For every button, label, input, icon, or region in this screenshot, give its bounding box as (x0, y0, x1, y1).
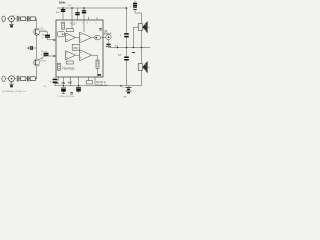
svg-text:5: 5 (96, 23, 97, 25)
pin arrow 2 (54, 55, 56, 57)
wire input1 (19, 19, 37, 28)
capacitor C2b (27, 76, 29, 81)
battery B1 (122, 86, 131, 99)
pin numbers (60, 23, 97, 25)
tick on riser (132, 52, 135, 54)
svg-text:IC1: IC1 (71, 21, 76, 25)
top rail (57, 7, 127, 9)
mark near right edge (99, 29, 101, 30)
capacitor C2 (17, 76, 19, 82)
svg-text:MC: MC (74, 46, 79, 50)
resistor R1 (21, 17, 26, 21)
IC box U1 (56, 20, 103, 77)
wire input2 (19, 78, 37, 80)
speaker LS2 (138, 48, 147, 86)
input jack J1 (2, 16, 5, 21)
svg-text:100n: 100n (59, 1, 66, 5)
electrolytic cap E1 (106, 44, 111, 47)
wires amp row 1 (76, 37, 95, 39)
op-amp B1 (80, 32, 92, 43)
svg-text:10u: 10u (42, 34, 45, 36)
svg-text:C7 100n C8 100u: C7 100n C8 100u (57, 96, 75, 98)
component box on pin (86, 81, 92, 84)
wire between transistors (36, 48, 38, 59)
pin ticks top (89, 17, 98, 20)
svg-text:DC-9V In: DC-9V In (96, 82, 106, 84)
speaker LS1 (138, 13, 147, 48)
output oval 1 (94, 35, 101, 40)
capacitor C10 (56, 1, 66, 20)
ground G2 (9, 82, 13, 88)
svg-text:900mA: 900mA (104, 33, 112, 36)
interior stubs (72, 20, 84, 32)
resistor inside bottom-right (96, 60, 99, 77)
microphone M1 (7, 15, 16, 22)
wire T1 collector (36, 35, 38, 48)
input jack J2 (2, 76, 5, 81)
op-amp D1 (80, 50, 92, 61)
svg-text:2: 2 (82, 23, 83, 25)
capacitor C4 to ground (61, 88, 66, 93)
ground G1 (9, 22, 13, 28)
svg-text:7: 7 (60, 23, 61, 25)
riser to LS1 (134, 27, 139, 47)
output wire W1 (109, 47, 151, 49)
lamp L1 (106, 35, 111, 44)
svg-text:8: 8 (87, 23, 88, 25)
pin arrow 1 (54, 39, 56, 41)
resistor inside bottom (57, 63, 60, 70)
svg-text:DC-9V out: DC-9V out (96, 84, 107, 87)
capacitor C8 to ground (76, 88, 81, 93)
feedback resistor top (66, 29, 73, 32)
svg-text:HY-WA-Ag GTCH92 ed: HY-WA-Ag GTCH92 ed (3, 90, 26, 93)
feedback resistor bottom (66, 61, 73, 64)
svg-text:10u: 10u (41, 51, 44, 53)
capacitor C1b (27, 16, 29, 21)
wire T2 down (36, 66, 38, 79)
svg-text:BC550: BC550 (40, 61, 46, 63)
resistor R4 (30, 77, 35, 81)
bottom rail (55, 85, 142, 87)
wires amp row 2 (76, 55, 98, 60)
pin stub (71, 8, 73, 20)
capacitor C17 top right (130, 1, 142, 13)
capacitor C12 (82, 7, 86, 20)
svg-text:TDA7052: TDA7052 (62, 67, 75, 71)
capacitor C5 (40, 32, 54, 40)
capacitor C3 (28, 46, 37, 50)
capacitor C11 (75, 8, 79, 20)
capacitor C1 (17, 16, 19, 22)
resistor inside top (62, 22, 65, 29)
op-amp A1 (66, 33, 76, 42)
capacitor C13 (50, 77, 58, 86)
rail junction dots (63, 85, 65, 87)
capacitor C6 (39, 51, 53, 60)
mid block MC (72, 44, 80, 50)
drop with capacitor C15 (118, 48, 129, 86)
small marks (70, 93, 73, 94)
block left (58, 32, 65, 37)
pin stubs bottom (59, 77, 96, 86)
transistor T2 (34, 59, 40, 66)
svg-text:3: 3 (76, 23, 77, 25)
svg-text:10u: 10u (55, 83, 60, 85)
resistor R3 (21, 77, 26, 81)
microphone M2 (7, 75, 16, 82)
resistor R2 (30, 17, 35, 21)
riser with capacitor C14 (120, 7, 129, 47)
bar near corner (98, 74, 101, 76)
op-amp C1t (66, 51, 76, 60)
svg-text:47u: 47u (61, 82, 66, 85)
transistor T1 (34, 28, 40, 35)
